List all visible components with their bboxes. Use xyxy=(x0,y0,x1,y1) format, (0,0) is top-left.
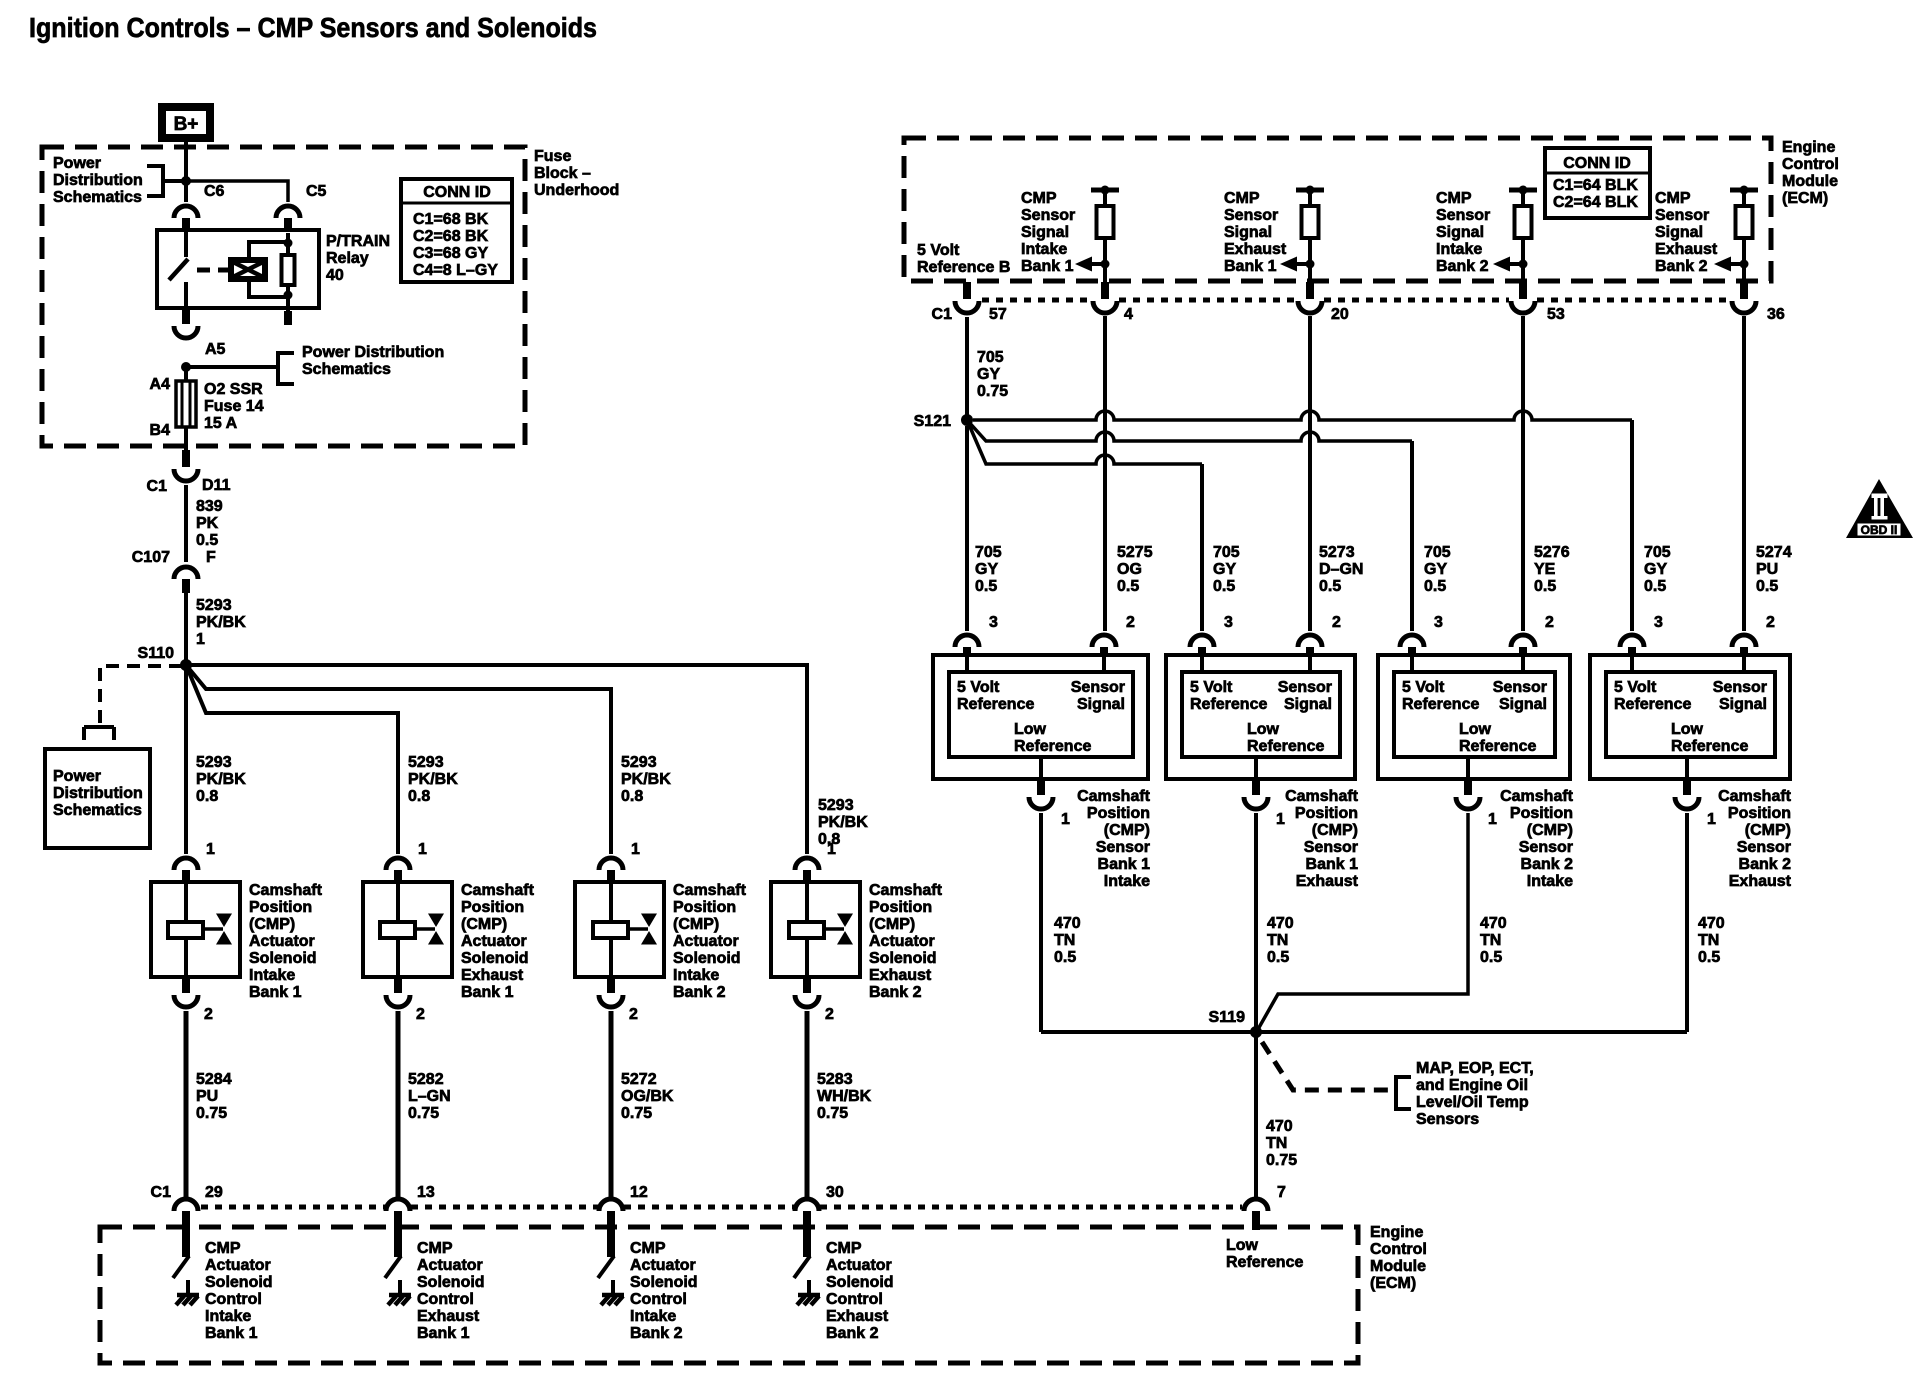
wire fuse to connector C1 D11 xyxy=(184,427,188,450)
svg-text:2: 2 xyxy=(1332,614,1341,631)
wire 5283 WH/BK 0.75 xyxy=(805,1011,810,1198)
svg-text:1: 1 xyxy=(1061,811,1070,828)
wire B+ to relay xyxy=(184,142,188,202)
svg-text:Power Distribution: Power Distribution xyxy=(302,344,444,361)
svg-text:Bank 1: Bank 1 xyxy=(205,1325,258,1342)
svg-text:Control: Control xyxy=(417,1291,474,1308)
svg-text:Solenoid: Solenoid xyxy=(205,1274,273,1291)
svg-text:1: 1 xyxy=(1488,811,1497,828)
svg-text:Exhaust: Exhaust xyxy=(461,967,524,984)
svg-text:Bank 2: Bank 2 xyxy=(1521,856,1574,873)
svg-text:1: 1 xyxy=(631,841,640,858)
svg-text:C5: C5 xyxy=(306,183,327,200)
svg-text:B+: B+ xyxy=(174,114,199,135)
svg-text:Distribution: Distribution xyxy=(53,172,143,189)
ECM pin 4 connector xyxy=(1101,282,1109,299)
relay resistor xyxy=(286,233,290,255)
svg-text:0.75: 0.75 xyxy=(1266,1152,1297,1169)
relay coil xyxy=(231,260,265,279)
svg-text:Camshaft: Camshaft xyxy=(1077,788,1151,805)
svg-text:PK/BK: PK/BK xyxy=(818,814,868,831)
ECM pull-up resistor 3 xyxy=(1509,188,1537,193)
svg-text:C3=68 GY: C3=68 GY xyxy=(413,245,488,262)
sensor 2 pin 1 connector xyxy=(1254,757,1258,779)
svg-text:MAP, EOP, ECT,: MAP, EOP, ECT, xyxy=(1416,1060,1534,1077)
svg-text:5293: 5293 xyxy=(818,797,854,814)
svg-text:705: 705 xyxy=(1424,544,1451,561)
CMP sensor 3 outer box xyxy=(1378,655,1570,779)
svg-text:Sensor: Sensor xyxy=(1278,679,1332,696)
svg-text:0.5: 0.5 xyxy=(1213,578,1235,595)
svg-text:Schematics: Schematics xyxy=(302,361,391,378)
solenoid 2 pin 2 connector xyxy=(394,977,402,993)
CMP actuator solenoid 2 box xyxy=(363,882,452,977)
svg-text:Module: Module xyxy=(1782,173,1838,190)
wire S110 to solenoid 2 xyxy=(186,665,398,854)
ECM driver switch 4 xyxy=(794,1256,810,1278)
ECM pin 57 connector xyxy=(963,282,971,299)
svg-text:Low: Low xyxy=(1226,1237,1259,1254)
ECM driver switch 3 xyxy=(598,1256,614,1278)
svg-text:Power: Power xyxy=(53,768,101,785)
svg-text:Bank 1: Bank 1 xyxy=(417,1325,470,1342)
svg-text:13: 13 xyxy=(417,1184,435,1201)
svg-text:0.5: 0.5 xyxy=(1117,578,1139,595)
svg-text:0.5: 0.5 xyxy=(196,532,218,549)
svg-text:Signal: Signal xyxy=(1224,224,1272,241)
svg-text:3: 3 xyxy=(1224,614,1233,631)
svg-text:Level/Oil Temp: Level/Oil Temp xyxy=(1416,1094,1529,1111)
svg-text:D11: D11 xyxy=(202,477,231,494)
svg-text:1: 1 xyxy=(418,841,427,858)
wire S110 to solenoid 4 (top branch) xyxy=(186,665,807,854)
svg-text:GY: GY xyxy=(977,366,1000,383)
svg-text:GY: GY xyxy=(1424,561,1447,578)
CMP sensor 2 inner box xyxy=(1182,672,1340,757)
sensor 1 pin 1 connector xyxy=(1039,757,1043,779)
svg-text:(ECM): (ECM) xyxy=(1782,190,1828,207)
svg-text:Intake: Intake xyxy=(249,967,295,984)
svg-text:Intake: Intake xyxy=(1021,241,1067,258)
svg-text:5276: 5276 xyxy=(1534,544,1570,561)
wire 839 PK 0.5 xyxy=(184,485,188,562)
svg-text:OG/BK: OG/BK xyxy=(621,1088,674,1105)
relay switch xyxy=(184,232,188,257)
svg-text:0.8: 0.8 xyxy=(408,788,430,805)
wire S121 to sensor 1 five volt reference xyxy=(965,426,969,631)
svg-text:1: 1 xyxy=(1707,811,1716,828)
svg-text:and Engine Oil: and Engine Oil xyxy=(1416,1077,1528,1094)
svg-text:Exhaust: Exhaust xyxy=(417,1308,480,1325)
bracket to Power Distribution Schematics (mid) xyxy=(278,353,294,384)
svg-text:1: 1 xyxy=(827,841,836,858)
svg-text:470: 470 xyxy=(1480,915,1507,932)
svg-text:Camshaft: Camshaft xyxy=(673,882,747,899)
engine control module dashed box (bottom) xyxy=(100,1227,1358,1363)
dashed link S119 to MAP EOP ECT sensors xyxy=(1262,1042,1396,1090)
svg-text:C1: C1 xyxy=(151,1184,172,1201)
svg-text:Position: Position xyxy=(1087,805,1150,822)
svg-text:3: 3 xyxy=(1434,614,1443,631)
svg-text:0.5: 0.5 xyxy=(1698,949,1720,966)
svg-text:7: 7 xyxy=(1277,1184,1286,1201)
ECM driver switch 2 xyxy=(385,1256,401,1278)
svg-text:Sensor: Sensor xyxy=(1096,839,1150,856)
svg-text:Block –: Block – xyxy=(534,165,591,182)
svg-text:0.75: 0.75 xyxy=(196,1105,227,1122)
solenoid 1 pin 2 connector xyxy=(182,977,190,993)
svg-text:(CMP): (CMP) xyxy=(1104,822,1150,839)
svg-text:Sensor: Sensor xyxy=(1493,679,1547,696)
svg-text:YE: YE xyxy=(1534,561,1556,578)
svg-text:30: 30 xyxy=(826,1184,844,1201)
svg-text:CMP: CMP xyxy=(1224,190,1260,207)
svg-text:0.75: 0.75 xyxy=(817,1105,848,1122)
CONN ID table (ECM) xyxy=(1545,148,1650,218)
P/TRAIN relay 40 box xyxy=(157,230,319,308)
wire junction to C5 branch xyxy=(186,181,288,202)
svg-text:Underhood: Underhood xyxy=(534,182,619,199)
svg-text:B4: B4 xyxy=(150,422,171,439)
svg-text:S110: S110 xyxy=(138,645,175,662)
solenoid 4 pin 1 connector xyxy=(795,858,819,870)
ECM signal arrow 3 xyxy=(1509,262,1523,266)
svg-text:Position: Position xyxy=(673,899,736,916)
CMP actuator solenoid 3 box xyxy=(575,882,664,977)
solenoid 3 coil xyxy=(609,884,613,922)
svg-text:PK/BK: PK/BK xyxy=(621,771,671,788)
wire S121 to sensor 2 five volt reference xyxy=(967,420,1202,464)
wire S121 to sensor 3 five volt reference xyxy=(967,420,1412,441)
solenoid 2 valve symbol xyxy=(428,914,444,928)
dashed link S110 to power distribution schematics box xyxy=(100,666,182,727)
svg-text:Fuse: Fuse xyxy=(534,148,571,165)
svg-text:Control: Control xyxy=(630,1291,687,1308)
svg-text:CONN ID: CONN ID xyxy=(1563,155,1631,172)
svg-text:5274: 5274 xyxy=(1756,544,1792,561)
ECM signal arrow 2 xyxy=(1296,262,1310,266)
svg-text:470: 470 xyxy=(1698,915,1725,932)
svg-text:Sensors: Sensors xyxy=(1416,1111,1479,1128)
svg-text:TN: TN xyxy=(1267,932,1288,949)
svg-text:Actuator: Actuator xyxy=(249,933,315,950)
ECM signal junction 4 xyxy=(1740,260,1749,269)
svg-text:Camshaft: Camshaft xyxy=(461,882,535,899)
wire 5282 L–GN 0.75 xyxy=(396,1011,401,1198)
svg-text:470: 470 xyxy=(1266,1118,1293,1135)
svg-text:Solenoid: Solenoid xyxy=(869,950,937,967)
bracket to MAP EOP ECT sensors xyxy=(1396,1077,1411,1109)
svg-text:CONN ID: CONN ID xyxy=(423,184,491,201)
svg-text:1: 1 xyxy=(196,631,205,648)
svg-text:0.8: 0.8 xyxy=(621,788,643,805)
svg-text:D–GN: D–GN xyxy=(1319,561,1363,578)
svg-text:Position: Position xyxy=(1295,805,1358,822)
ground (ECM driver 2) xyxy=(388,1295,411,1305)
svg-text:Reference: Reference xyxy=(1247,738,1324,755)
svg-text:0.5: 0.5 xyxy=(1319,578,1341,595)
svg-text:Actuator: Actuator xyxy=(869,933,935,950)
svg-text:5273: 5273 xyxy=(1319,544,1355,561)
sensor 4 pin 1 connector xyxy=(1685,757,1689,779)
svg-text:Reference B: Reference B xyxy=(917,259,1010,276)
svg-text:CMP: CMP xyxy=(826,1240,862,1257)
wire S110 to solenoid 1 xyxy=(184,665,188,854)
svg-text:Control: Control xyxy=(826,1291,883,1308)
CMP sensor 1 inner box xyxy=(949,672,1133,757)
wire 705 GY 0.75 xyxy=(965,317,969,420)
sensor 3 pin 1 connector xyxy=(1466,757,1470,779)
svg-text:GY: GY xyxy=(975,561,998,578)
relay actuation dashed link xyxy=(197,268,231,273)
ECM signal arrow 4 xyxy=(1730,262,1744,266)
ECM pull-up resistor 2 xyxy=(1296,188,1324,193)
svg-text:Solenoid: Solenoid xyxy=(673,950,741,967)
svg-text:Bank 1: Bank 1 xyxy=(1098,856,1151,873)
svg-text:PK/BK: PK/BK xyxy=(196,614,246,631)
svg-text:Bank 2: Bank 2 xyxy=(1436,258,1489,275)
svg-text:705: 705 xyxy=(1213,544,1240,561)
svg-text:5 Volt: 5 Volt xyxy=(957,679,1000,696)
svg-text:Actuator: Actuator xyxy=(461,933,527,950)
wire 5293 PK/BK 1 xyxy=(184,593,188,665)
B+ battery terminal xyxy=(158,103,214,142)
svg-text:Intake: Intake xyxy=(673,967,719,984)
svg-text:CMP: CMP xyxy=(1436,190,1472,207)
svg-text:(CMP): (CMP) xyxy=(249,916,295,933)
svg-text:Actuator: Actuator xyxy=(630,1257,696,1274)
svg-text:OBD II: OBD II xyxy=(1861,523,1898,537)
svg-text:5293: 5293 xyxy=(621,754,657,771)
svg-text:Exhaust: Exhaust xyxy=(1655,241,1718,258)
svg-text:PK/BK: PK/BK xyxy=(408,771,458,788)
svg-text:CMP: CMP xyxy=(205,1240,241,1257)
svg-text:Camshaft: Camshaft xyxy=(1500,788,1574,805)
svg-text:Position: Position xyxy=(869,899,932,916)
power distribution schematics box (bottom left) xyxy=(45,749,150,848)
svg-text:705: 705 xyxy=(975,544,1002,561)
svg-text:Exhaust: Exhaust xyxy=(869,967,932,984)
svg-text:5282: 5282 xyxy=(408,1071,444,1088)
svg-text:C2=68 BK: C2=68 BK xyxy=(413,228,489,245)
svg-text:Fuse 14: Fuse 14 xyxy=(204,398,264,415)
svg-text:A5: A5 xyxy=(205,341,226,358)
solenoid 1 pin 1 connector xyxy=(174,858,198,870)
wire sensor 2 low reference xyxy=(1254,813,1258,1199)
svg-text:Ignition Controls – CMP Sensor: Ignition Controls – CMP Sensors and Sole… xyxy=(29,12,597,43)
solenoid 3 pin 1 connector xyxy=(599,858,623,870)
svg-text:5293: 5293 xyxy=(196,597,232,614)
svg-text:0.5: 0.5 xyxy=(1644,578,1666,595)
svg-text:S121: S121 xyxy=(914,413,951,430)
svg-text:(CMP): (CMP) xyxy=(869,916,915,933)
solenoid 4 coil xyxy=(805,884,809,922)
ground (ECM driver 1) xyxy=(176,1295,199,1305)
svg-text:3: 3 xyxy=(1654,614,1663,631)
svg-text:Engine: Engine xyxy=(1782,139,1835,156)
svg-text:40: 40 xyxy=(326,267,344,284)
CMP actuator solenoid 4 box xyxy=(771,882,860,977)
engine control module dashed box (top right) xyxy=(904,138,1771,281)
svg-text:Control: Control xyxy=(1782,156,1839,173)
svg-text:Camshaft: Camshaft xyxy=(1285,788,1359,805)
fuse block underhood dashed box xyxy=(42,147,525,446)
connector C1 D11 xyxy=(182,450,190,467)
solenoid 1 coil xyxy=(184,884,188,922)
svg-text:Actuator: Actuator xyxy=(673,933,739,950)
svg-text:Sensor: Sensor xyxy=(1304,839,1358,856)
ECM pull-up resistor 4 xyxy=(1730,188,1758,193)
svg-text:Bank 1: Bank 1 xyxy=(249,984,302,1001)
relay coil terminal stub xyxy=(284,311,292,325)
svg-text:Bank 1: Bank 1 xyxy=(1224,258,1277,275)
svg-text:Control: Control xyxy=(205,1291,262,1308)
svg-text:F: F xyxy=(206,549,216,566)
svg-text:Reference: Reference xyxy=(1671,738,1748,755)
svg-text:(ECM): (ECM) xyxy=(1370,1275,1416,1292)
svg-text:Signal: Signal xyxy=(1284,696,1332,713)
svg-text:Camshaft: Camshaft xyxy=(249,882,323,899)
CONN ID table (fuse block) xyxy=(401,179,512,282)
svg-text:2: 2 xyxy=(825,1006,834,1023)
ECM C1 connector dotted line (top) xyxy=(982,298,1091,303)
low reference bus wire xyxy=(1041,1030,1687,1034)
wire sensor 1 low reference xyxy=(1039,813,1043,1032)
svg-text:Exhaust: Exhaust xyxy=(826,1308,889,1325)
svg-text:Low: Low xyxy=(1459,721,1492,738)
svg-text:PK/BK: PK/BK xyxy=(196,771,246,788)
svg-text:C107: C107 xyxy=(132,549,170,566)
svg-text:Power: Power xyxy=(53,155,101,172)
svg-text:29: 29 xyxy=(205,1184,223,1201)
svg-text:470: 470 xyxy=(1267,915,1294,932)
svg-text:PU: PU xyxy=(1756,561,1778,578)
svg-text:5 Volt: 5 Volt xyxy=(1614,679,1657,696)
wire ECM pin 53 to sensor 3 signal xyxy=(1521,316,1525,631)
svg-text:Relay: Relay xyxy=(326,250,369,267)
svg-text:53: 53 xyxy=(1547,306,1565,323)
ECM pin 20 connector xyxy=(1306,282,1314,299)
svg-text:Exhaust: Exhaust xyxy=(1224,241,1287,258)
svg-text:Intake: Intake xyxy=(630,1308,676,1325)
svg-text:Solenoid: Solenoid xyxy=(417,1274,485,1291)
svg-text:1: 1 xyxy=(206,841,215,858)
svg-text:5283: 5283 xyxy=(817,1071,853,1088)
svg-text:Signal: Signal xyxy=(1655,224,1703,241)
svg-text:0.5: 0.5 xyxy=(1424,578,1446,595)
ECM pin 53 connector xyxy=(1519,282,1527,299)
svg-text:TN: TN xyxy=(1266,1135,1287,1152)
CMP sensor 3 inner box xyxy=(1394,672,1555,757)
svg-text:CMP: CMP xyxy=(417,1240,453,1257)
junction node at B+ wire xyxy=(181,176,191,186)
svg-text:(CMP): (CMP) xyxy=(1527,822,1573,839)
svg-text:3: 3 xyxy=(989,614,998,631)
solenoid 2 pin 1 connector xyxy=(386,858,410,870)
svg-text:C2=64 BLK: C2=64 BLK xyxy=(1553,194,1638,211)
svg-text:0.5: 0.5 xyxy=(1054,949,1076,966)
ECM signal junction 3 xyxy=(1519,260,1528,269)
svg-text:20: 20 xyxy=(1331,306,1349,323)
svg-text:Bank 1: Bank 1 xyxy=(1021,258,1074,275)
svg-text:Position: Position xyxy=(1728,805,1791,822)
svg-text:Solenoid: Solenoid xyxy=(249,950,317,967)
svg-text:Intake: Intake xyxy=(1436,241,1482,258)
svg-text:4: 4 xyxy=(1124,306,1133,323)
svg-text:Sensor: Sensor xyxy=(1737,839,1791,856)
svg-text:Sensor: Sensor xyxy=(1436,207,1490,224)
wire ECM pin 36 to sensor 4 signal xyxy=(1742,316,1746,631)
ground (ECM driver 4) xyxy=(797,1295,820,1305)
fuse O2 SSR Fuse 14 15A xyxy=(184,367,188,381)
svg-text:GY: GY xyxy=(1213,561,1236,578)
svg-text:Intake: Intake xyxy=(1527,873,1573,890)
svg-text:5293: 5293 xyxy=(408,754,444,771)
svg-text:5272: 5272 xyxy=(621,1071,657,1088)
svg-text:Position: Position xyxy=(461,899,524,916)
solenoid 2 coil xyxy=(396,884,400,922)
wire S121 to sensor 4 five volt reference xyxy=(973,411,1632,420)
wire S110 to solenoid 3 xyxy=(186,665,611,854)
svg-text:Reference: Reference xyxy=(1459,738,1536,755)
svg-text:15 A: 15 A xyxy=(204,415,238,432)
svg-text:GY: GY xyxy=(1644,561,1667,578)
svg-text:2: 2 xyxy=(1766,614,1775,631)
svg-text:Position: Position xyxy=(249,899,312,916)
svg-text:(CMP): (CMP) xyxy=(461,916,507,933)
wire sensor 4 low reference xyxy=(1685,813,1689,1032)
svg-text:Camshaft: Camshaft xyxy=(869,882,943,899)
svg-text:Reference: Reference xyxy=(1614,696,1691,713)
svg-text:Bank 2: Bank 2 xyxy=(826,1325,879,1342)
solenoid 1 valve symbol xyxy=(216,914,232,928)
svg-text:Sensor: Sensor xyxy=(1655,207,1709,224)
svg-text:TN: TN xyxy=(1480,932,1501,949)
svg-text:5293: 5293 xyxy=(196,754,232,771)
svg-text:12: 12 xyxy=(630,1184,648,1201)
svg-text:Actuator: Actuator xyxy=(417,1257,483,1274)
svg-text:36: 36 xyxy=(1767,306,1785,323)
svg-text:470: 470 xyxy=(1054,915,1081,932)
svg-text:0.5: 0.5 xyxy=(1756,578,1778,595)
solenoid 4 pin 2 connector xyxy=(803,977,811,993)
svg-text:Sensor: Sensor xyxy=(1713,679,1767,696)
svg-text:Reference: Reference xyxy=(1226,1254,1303,1271)
ECM signal junction 2 xyxy=(1306,260,1315,269)
solenoid 4 valve symbol xyxy=(837,914,853,928)
svg-text:(CMP): (CMP) xyxy=(673,916,719,933)
svg-text:Sensor: Sensor xyxy=(1224,207,1278,224)
svg-text:C4=8 L–GY: C4=8 L–GY xyxy=(413,262,498,279)
svg-text:5275: 5275 xyxy=(1117,544,1153,561)
svg-text:Engine: Engine xyxy=(1370,1224,1423,1241)
wire ECM pin 20 to sensor 2 signal xyxy=(1308,316,1312,631)
svg-text:1: 1 xyxy=(1276,811,1285,828)
svg-text:Signal: Signal xyxy=(1436,224,1484,241)
connector A5 xyxy=(182,308,190,324)
svg-text:C1: C1 xyxy=(147,478,168,495)
svg-text:Bank 2: Bank 2 xyxy=(673,984,726,1001)
wire sensor 3 low reference xyxy=(1257,813,1468,1031)
svg-text:0.8: 0.8 xyxy=(196,788,218,805)
svg-text:A4: A4 xyxy=(150,376,171,393)
svg-text:Bank 1: Bank 1 xyxy=(1306,856,1359,873)
svg-text:5 Volt: 5 Volt xyxy=(917,242,960,259)
svg-text:0.75: 0.75 xyxy=(621,1105,652,1122)
svg-text:Bank 2: Bank 2 xyxy=(869,984,922,1001)
svg-text:Signal: Signal xyxy=(1499,696,1547,713)
svg-text:Bank 2: Bank 2 xyxy=(630,1325,683,1342)
